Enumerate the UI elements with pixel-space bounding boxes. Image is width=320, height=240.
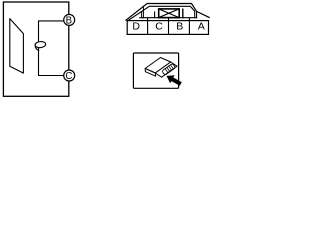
svg-text:C: C <box>65 71 72 82</box>
wire B to C <box>39 21 65 76</box>
lid right corner vertical <box>196 11 198 17</box>
connector block socket face <box>155 62 177 77</box>
grommet tail arc <box>35 45 38 50</box>
terminal C <box>64 70 75 81</box>
relay box lid outer outline <box>126 4 209 21</box>
fuse row front face <box>127 21 208 35</box>
svg-text:B: B <box>66 15 72 26</box>
clip left of relay <box>154 12 156 18</box>
svg-text:A: A <box>198 21 205 33</box>
divider right of relay <box>182 9 184 18</box>
grommet ellipse <box>35 41 46 48</box>
icon frame <box>133 53 178 88</box>
lid tabs <box>142 7 144 17</box>
cell separators <box>148 18 190 35</box>
relay with X <box>159 9 180 18</box>
connector block left face <box>145 69 156 77</box>
connector socket detail <box>162 63 176 75</box>
outer box <box>3 2 68 96</box>
lid bottom edge <box>140 17 197 19</box>
svg-text:B: B <box>176 21 183 33</box>
connector body (side view) <box>10 19 24 74</box>
arrow pointing at connector <box>167 75 182 86</box>
lid inner rim <box>128 6 195 20</box>
svg-text:C: C <box>155 21 163 33</box>
terminal B <box>64 14 75 25</box>
svg-text:D: D <box>132 21 140 33</box>
connector block top face <box>145 58 171 74</box>
